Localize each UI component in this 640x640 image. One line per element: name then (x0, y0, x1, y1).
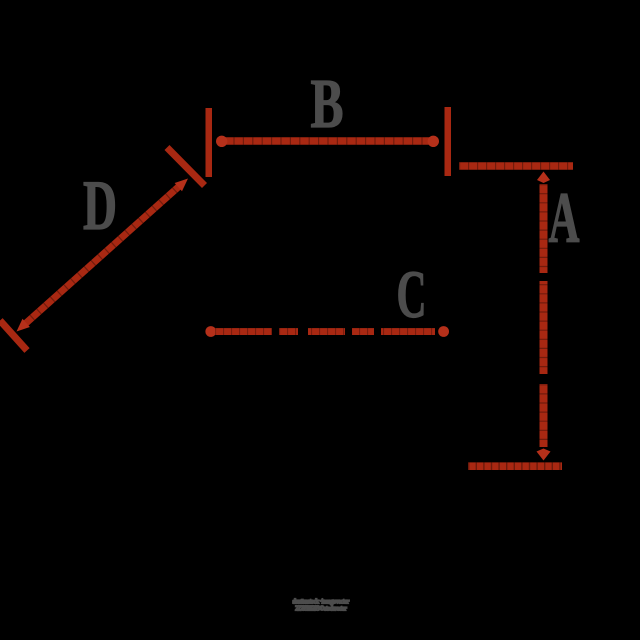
extension bar right of B (445, 107, 452, 176)
dimension line A (537, 172, 551, 461)
tick at upper end of D (167, 148, 205, 186)
dimension line C (dashed) (205, 326, 449, 337)
label B (311, 66, 344, 143)
svg-text:A: A (549, 178, 580, 258)
dimension line D (diagonal) (17, 179, 189, 332)
label C (397, 256, 427, 332)
svg-text:B: B (311, 66, 344, 143)
tick at lower end of D (0, 321, 27, 351)
label A (549, 178, 580, 258)
svg-text:C: C (397, 256, 427, 332)
svg-text:2279518293 © stockvector: 2279518293 © stockvector (295, 605, 347, 613)
shelf line bottom right (468, 462, 562, 470)
svg-text:D: D (83, 167, 117, 245)
watermark text (293, 598, 350, 613)
label D (83, 167, 117, 245)
shelf line top right (459, 162, 573, 170)
dimension line B (216, 136, 439, 147)
extension bar left of B (206, 108, 213, 177)
